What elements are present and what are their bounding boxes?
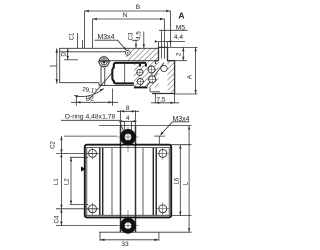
svg-text:4,5: 4,5 (137, 31, 143, 40)
svg-text:C1: C1 (70, 32, 76, 40)
svg-text:8: 8 (126, 105, 130, 112)
svg-text:33: 33 (121, 241, 129, 248)
svg-text:M3x4: M3x4 (172, 116, 189, 123)
svg-text:O-ring 4,48x1,78: O-ring 4,48x1,78 (65, 114, 116, 121)
svg-text:4,4: 4,4 (174, 34, 183, 41)
svg-text:L1: L1 (54, 178, 60, 185)
svg-text:C2: C2 (51, 141, 57, 149)
svg-text:4: 4 (126, 115, 130, 122)
svg-text:N: N (123, 12, 128, 19)
svg-text:C3: C3 (129, 32, 135, 40)
svg-text:M3x4: M3x4 (97, 34, 114, 41)
svg-text:A: A (178, 11, 184, 21)
svg-text:C4: C4 (54, 215, 60, 223)
svg-text:L6: L6 (174, 177, 180, 184)
svg-text:B2: B2 (86, 96, 94, 103)
svg-text:B: B (136, 4, 141, 11)
svg-text:A: A (187, 74, 194, 79)
svg-text:L2: L2 (65, 178, 71, 185)
svg-text:D: D (61, 52, 67, 57)
svg-text:7,5: 7,5 (156, 96, 165, 103)
svg-text:M5: M5 (176, 24, 185, 31)
